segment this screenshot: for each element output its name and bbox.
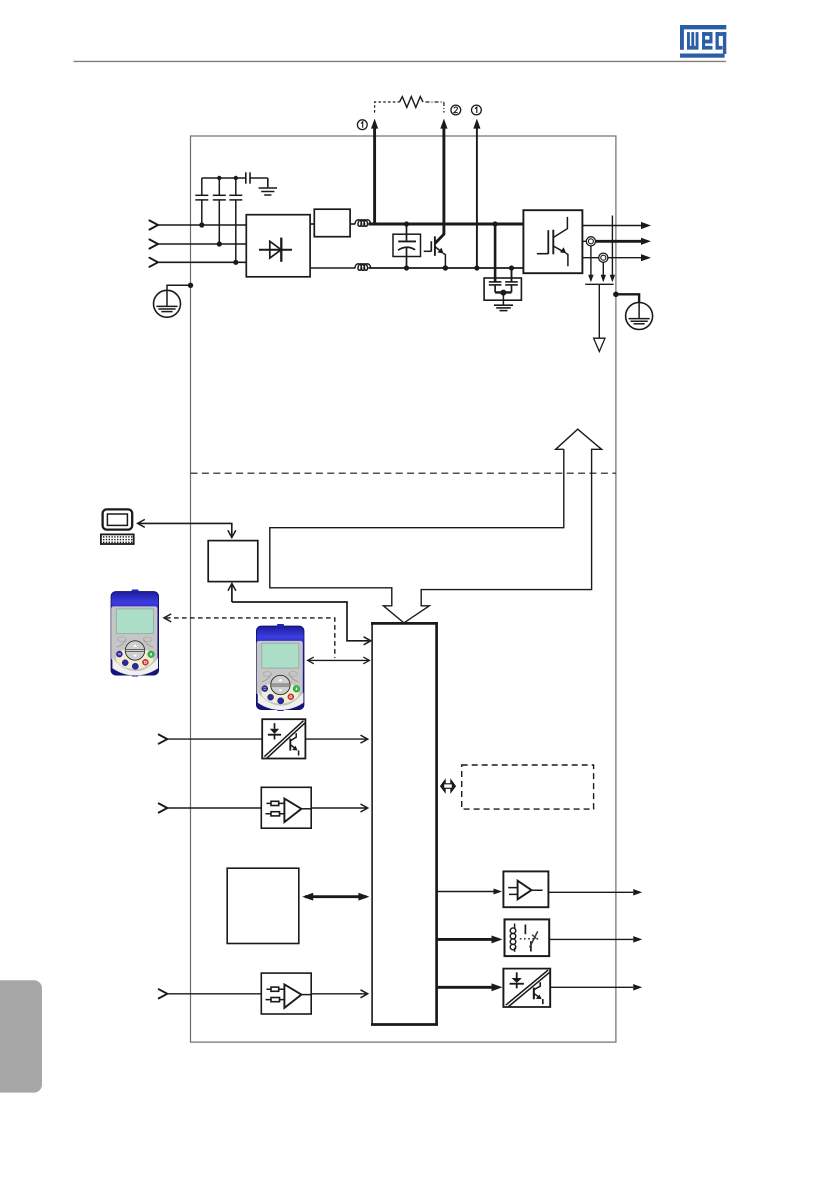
node C2-S <box>217 241 222 246</box>
RFI capacitor C3 <box>229 178 242 262</box>
wire DO out <box>550 986 633 988</box>
PC icon keyboard <box>101 534 134 544</box>
arrowhead to remote HMI <box>164 614 171 622</box>
digital input wire <box>167 738 262 740</box>
wire CPU to digital output thick <box>437 986 497 989</box>
wire U4 to CPU <box>311 807 366 809</box>
WEG logo <box>680 25 726 58</box>
analog input arrow 2 <box>159 989 168 998</box>
wire PC to serial module <box>139 523 232 535</box>
output wire V thick <box>596 240 642 243</box>
Y-capacitor box <box>484 278 521 300</box>
wire U5 to CPU <box>311 993 366 995</box>
header horizontal rule <box>74 60 727 62</box>
node Y-cap common <box>500 290 506 296</box>
accessory dashed box <box>462 765 594 809</box>
keypad HMI remote <box>111 590 159 677</box>
node PE right on border <box>613 292 619 298</box>
RFI bus wire <box>202 177 246 179</box>
wire CPU to analog output <box>437 891 499 893</box>
node C2 top <box>217 176 221 180</box>
arrowhead into serial module bottom <box>228 584 236 591</box>
shield arrowhead 2 <box>601 275 606 283</box>
analog input amplifier U5 <box>261 973 311 1014</box>
input phase wire R <box>158 224 246 226</box>
terminal label 1 left <box>357 120 367 130</box>
serial interface module box <box>208 541 258 582</box>
arrowhead BR <box>440 119 447 129</box>
node PE left on border <box>188 283 193 288</box>
RFI capacitor C2 <box>213 178 226 244</box>
PE ground right symbol <box>626 303 653 330</box>
Y-cap ground stub <box>502 292 504 305</box>
inverter IGBT emitter arrowhead <box>560 247 566 253</box>
gray side tab <box>0 980 42 1092</box>
wire CPU to relay thick <box>437 938 497 941</box>
arrowhead to HMI <box>308 657 314 664</box>
diagram outer border <box>191 136 616 1042</box>
output arrowhead W <box>641 254 651 261</box>
current sensor T2 <box>599 253 608 262</box>
output wire U <box>582 225 641 227</box>
input phase wire S <box>158 243 246 245</box>
wire rectifier to pre-charge <box>310 223 314 225</box>
shield open arrowhead <box>594 338 605 351</box>
rectifier D1 <box>246 215 310 277</box>
wire U3 to CPU <box>305 738 366 740</box>
input phase wire T <box>158 261 246 263</box>
power/control dashed divider <box>191 472 616 474</box>
dashed wire remote HMI <box>166 618 335 658</box>
G_CONTROL <box>101 429 642 1025</box>
node C5 minus <box>404 265 409 270</box>
analog input wire 1 <box>167 807 261 809</box>
accessory bidirectional glyph <box>440 778 456 794</box>
inverter IGBT symbol <box>537 217 568 266</box>
digital output optocoupler U8 <box>503 969 550 1007</box>
shield stem <box>598 284 600 338</box>
PC icon monitor <box>103 509 133 529</box>
arrowhead DO out <box>633 984 642 990</box>
node +UD cap tap <box>404 221 409 226</box>
wire AO out <box>548 891 633 893</box>
wire pre-charge to choke <box>350 223 355 225</box>
relay output block K1 <box>505 919 550 956</box>
output wire W right <box>608 257 642 259</box>
wire relay out <box>549 938 633 940</box>
terminal riser BR <box>435 126 444 243</box>
analog input arrow 1 <box>159 803 168 812</box>
arrowhead slot left <box>302 893 313 901</box>
wire slot to CPU thick bidirectional <box>305 895 367 898</box>
RFI capacitor C1 <box>195 178 208 225</box>
arrowhead into serial module top <box>228 530 236 537</box>
input arrow T <box>149 258 158 267</box>
PE left wire <box>167 285 191 290</box>
node C7 on -UD <box>509 265 514 270</box>
arrowhead into CPU left <box>364 637 371 645</box>
arrowhead -UD <box>473 119 480 129</box>
node C1-R <box>199 222 204 227</box>
wire CPU to serial module <box>232 586 369 641</box>
shield drop wire 3 <box>611 216 613 277</box>
arrowhead relay out <box>633 936 642 942</box>
current sensor T1 <box>586 237 595 246</box>
DC choke lower <box>355 264 371 270</box>
shield bar <box>585 283 613 285</box>
Y-capacitor C7 <box>505 268 518 292</box>
arrowhead U4 to CPU <box>361 804 368 812</box>
node C3 top <box>234 176 238 180</box>
Y-cap common wire <box>495 291 511 293</box>
+UD bus thick wire <box>369 223 524 226</box>
analog input wire 2 <box>167 993 261 995</box>
arrowhead to PC <box>138 519 145 527</box>
digital input arrow <box>159 735 168 744</box>
input arrow S <box>149 239 158 248</box>
arrowhead into AO <box>494 888 503 894</box>
terminal riser +UD <box>373 126 376 224</box>
braking resistor R1 dashed leads <box>375 102 444 113</box>
arrowhead to CPU <box>363 657 369 664</box>
expansion slot box <box>227 868 299 943</box>
arrowhead into relay <box>492 935 503 943</box>
arrowhead AO out <box>633 889 642 895</box>
arrowhead into DO <box>492 983 503 991</box>
DC link capacitor C5 <box>398 224 416 268</box>
terminal label 2 <box>451 105 461 115</box>
series capacitor C4 <box>246 172 268 187</box>
analog output block U7 <box>503 871 548 907</box>
arrowhead U3 to CPU <box>361 735 368 743</box>
shield arrowhead 1 <box>588 275 593 283</box>
G_POWER <box>149 97 652 352</box>
wire rectifier bottom <box>310 267 355 269</box>
arrowhead slot right <box>358 893 369 901</box>
digital input optocoupler U3 <box>262 719 305 758</box>
terminal riser -UD <box>476 126 478 268</box>
PC icon screen <box>107 514 127 525</box>
arrowhead U5 to CPU <box>361 990 368 998</box>
PE right wire <box>616 294 639 302</box>
keypad HMI local <box>256 624 304 711</box>
output arrowhead V <box>641 238 651 245</box>
bidirectional hollow arrow control-to-power <box>270 429 602 623</box>
output wire W thin <box>582 257 598 259</box>
node C3-T <box>233 260 238 265</box>
Y-capacitor C6 <box>489 224 502 292</box>
pre-charge block <box>314 209 350 237</box>
ground of RFI filter <box>259 188 277 195</box>
Q1 emitter arrowhead <box>438 248 444 254</box>
input arrow R <box>149 220 158 229</box>
output arrowhead U <box>641 222 651 229</box>
wire HMI to CPU bidirectional <box>309 659 368 661</box>
braking transistor Q1 <box>424 236 446 268</box>
braking resistor R1 <box>400 97 424 108</box>
node Q1 emitter <box>443 265 448 270</box>
shield drop wire 2 <box>602 262 604 276</box>
node -UD tap <box>474 265 479 270</box>
PE ground left symbol <box>154 290 181 317</box>
terminal label 1 right <box>472 105 482 115</box>
output wire V thin <box>582 240 586 242</box>
inverter block U2 <box>523 210 582 273</box>
shield drop wire 1 <box>590 246 592 277</box>
-UD bus wire <box>369 267 524 269</box>
DC choke upper <box>355 220 371 226</box>
CPU block <box>371 623 438 1025</box>
rectifier diode symbol <box>259 238 292 262</box>
DC link capacitor C5 box <box>393 234 421 256</box>
analog input amplifier U4 <box>261 787 311 828</box>
node +UD ycap tap <box>493 221 498 226</box>
shield arrowhead 3 <box>610 275 615 283</box>
Y-cap ground bars <box>494 305 513 310</box>
arrowhead +UD <box>371 119 378 129</box>
